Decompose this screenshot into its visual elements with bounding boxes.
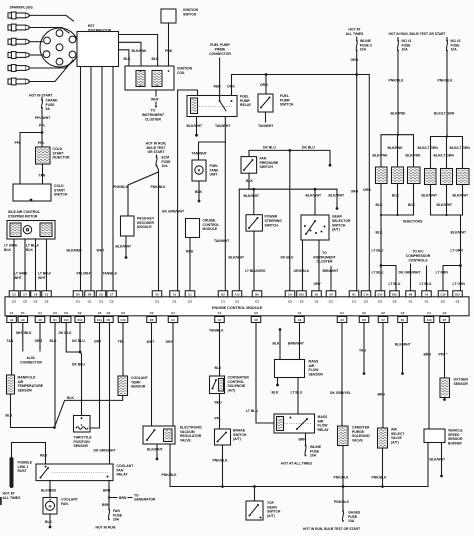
svg-text:A10: A10	[235, 292, 240, 296]
svg-text:BLK/WHT: BLK/WHT	[437, 203, 454, 207]
edge mark	[0, 497, 2, 505]
svg-text:BLK/RED: BLK/RED	[41, 489, 57, 493]
engine control module body	[5, 297, 469, 316]
air select valve	[378, 428, 388, 448]
svg-text:LT GRN: LT GRN	[436, 270, 449, 274]
svg-text:PNK/BLK: PNK/BLK	[438, 79, 454, 83]
wire BLK/WHT EVRV ground	[156, 444, 158, 458]
svg-text:BLK: BLK	[67, 396, 75, 400]
ECM fuse 10A	[156, 155, 158, 157]
svg-text:PNK/BLK: PNK/BLK	[372, 476, 388, 480]
svg-text:CLUSTER: CLUSTER	[316, 260, 333, 264]
fuel tank unit	[192, 160, 206, 181]
wire TAN/BLK distributor	[112, 67, 114, 291]
ECM bottom connector C2	[378, 317, 388, 323]
svg-text:TO: TO	[151, 109, 156, 113]
svg-text:BLK/WHT: BLK/WHT	[395, 342, 412, 346]
wire WHT distributor	[101, 67, 103, 291]
svg-text:A4: A4	[171, 318, 175, 322]
svg-text:C9: C9	[288, 292, 292, 296]
svg-text:DK GRN/YEL: DK GRN/YEL	[330, 391, 351, 395]
wire DK GRN/WHT to A/C controls	[410, 264, 412, 291]
svg-text:A9: A9	[21, 318, 25, 322]
svg-text:ENGINE CONTROL MODULE: ENGINE CONTROL MODULE	[212, 306, 263, 310]
PNK/BLK bus	[170, 486, 428, 488]
injector bank 1 return bus	[381, 214, 414, 216]
injector bank 2 return bus	[431, 214, 463, 216]
svg-text:BLK/PNK: BLK/PNK	[388, 146, 404, 150]
svg-text:DK BLU: DK BLU	[281, 255, 294, 259]
svg-text:PPL: PPL	[39, 124, 46, 128]
wire injector 2 feed	[397, 135, 399, 167]
svg-text:D16: D16	[392, 292, 397, 296]
svg-text:C2: C2	[456, 300, 460, 304]
svg-text:DK BLU: DK BLU	[263, 146, 276, 150]
wire TAN/WHT branch to fuel tank unit	[199, 142, 226, 160]
svg-text:BRN/WHT: BRN/WHT	[288, 342, 305, 346]
ECM top connector C5	[42, 291, 52, 297]
terminal DK BLU	[329, 164, 332, 167]
svg-text:PNK/BLK: PNK/BLK	[334, 500, 350, 504]
svg-text:ORG: ORG	[351, 58, 359, 62]
svg-text:INSTRUMENT: INSTRUMENT	[142, 113, 165, 117]
svg-text:BLK/WHT: BLK/WHT	[187, 124, 204, 128]
ECM top connector C9	[285, 291, 295, 297]
wire PNK/BLK diagonal to pass-key	[128, 172, 159, 216]
svg-text:BRN: BRN	[102, 503, 110, 507]
svg-text:BLK: BLK	[6, 414, 14, 418]
node BLK ground splice	[53, 426, 56, 429]
injector 4	[425, 169, 437, 185]
spark plug 2	[8, 24, 29, 31]
svg-text:C2: C2	[393, 300, 397, 304]
svg-text:FUEL PUMP: FUEL PUMP	[210, 43, 230, 47]
wire DK BLU C13 to TPS	[79, 323, 81, 353]
svg-text:CONNECTOR: CONNECTOR	[209, 52, 231, 56]
wire BLK/WHT ground right	[402, 323, 404, 372]
svg-text:LT BLU: LT BLU	[389, 282, 401, 286]
svg-text:BRN: BRN	[119, 496, 127, 500]
ground oxygen sensor	[444, 398, 446, 400]
svg-text:C1: C1	[171, 311, 175, 315]
coolant fan motor	[43, 498, 57, 515]
cold start injector	[36, 147, 51, 164]
svg-text:A5: A5	[155, 292, 159, 296]
svg-text:ORG: ORG	[351, 190, 359, 194]
brake switch	[215, 429, 231, 445]
svg-text:C2: C2	[288, 300, 292, 304]
svg-text:PRIME: PRIME	[215, 47, 226, 51]
svg-text:BLK: BLK	[26, 248, 34, 252]
svg-text:(A/T): (A/T)	[267, 514, 275, 518]
svg-text:C2: C2	[254, 311, 258, 315]
svg-text:C2: C2	[300, 300, 304, 304]
svg-text:IDLE AIR CONTROL: IDLE AIR CONTROL	[8, 210, 40, 214]
wire LT GRN/WHT	[24, 239, 26, 291]
node BLK/WHT splice	[252, 188, 255, 191]
svg-text:LT BLU: LT BLU	[372, 270, 384, 274]
svg-text:C2: C2	[78, 311, 82, 315]
svg-text:BLK/PNK: BLK/PNK	[132, 49, 148, 53]
svg-text:C2: C2	[121, 311, 125, 315]
distributor cap towers	[44, 37, 51, 44]
svg-text:TAN/WHT: TAN/WHT	[214, 239, 230, 243]
svg-text:BRN: BRN	[378, 393, 386, 397]
svg-text:PPL/WHT: PPL/WHT	[77, 272, 93, 276]
ECM bottom connector A4	[168, 317, 178, 323]
svg-text:BLK/WHT: BLK/WHT	[451, 231, 468, 235]
ignition coil U-coil	[125, 66, 174, 90]
svg-text:TAN/BLK: TAN/BLK	[103, 272, 118, 276]
svg-text:TAN: TAN	[359, 349, 366, 353]
node ORG junction fuel pump switch	[265, 73, 268, 76]
node bank1 split	[380, 264, 383, 267]
BLK/WHT bus	[239, 188, 337, 190]
coolant temp sensor	[118, 376, 128, 396]
inline fuse 3 20A	[356, 37, 358, 40]
svg-text:SENSOR: SENSOR	[18, 388, 33, 392]
svg-text:C1: C1	[99, 300, 103, 304]
svg-text:BLK/PNK: BLK/PNK	[391, 112, 407, 116]
wire PNK/BLK air select	[382, 448, 384, 487]
svg-text:CONNECTOR: CONNECTOR	[20, 360, 42, 364]
wire YEL to coolant temp sensor	[122, 323, 124, 377]
ECM bottom connector D6	[359, 317, 369, 323]
wire LT BLU to MAF relay	[256, 323, 274, 424]
svg-text:GRY: GRY	[94, 340, 102, 344]
svg-text:BLK: BLK	[272, 391, 280, 395]
wire distributor to coil BLK outer	[119, 35, 158, 67]
svg-text:BLK/LT GRN: BLK/LT GRN	[434, 112, 455, 116]
svg-text:SPARKPLUGS: SPARKPLUGS	[10, 6, 34, 10]
wire DK BLU to C9	[289, 150, 291, 290]
wire PNK/BLK EVRV	[169, 444, 171, 487]
wire WHT/BLK to ALDL	[22, 323, 24, 352]
svg-text:RELAY: RELAY	[240, 103, 252, 107]
svg-text:A10: A10	[427, 318, 432, 322]
svg-text:BLK/PNK: BLK/PNK	[406, 153, 422, 157]
INJ #1 fuse 10A	[397, 38, 399, 41]
svg-text:C1: C1	[221, 300, 225, 304]
svg-text:LT BLU: LT BLU	[420, 282, 432, 286]
svg-text:C10: C10	[121, 318, 126, 322]
svg-text:ORG: ORG	[227, 85, 235, 89]
ECM top connector D10	[297, 291, 307, 297]
wire PNK/BLK brake switch	[222, 445, 224, 487]
svg-text:D1: D1	[53, 318, 57, 322]
svg-text:C2: C2	[45, 300, 49, 304]
svg-text:A1: A1	[10, 318, 14, 322]
svg-text:BRN: BRN	[103, 489, 111, 493]
wire DK GRN/WHT to coolant fan relay	[109, 323, 111, 465]
svg-text:LT GRN: LT GRN	[453, 282, 466, 286]
ECM top connector D15	[453, 291, 463, 297]
ECM top connector D6	[73, 291, 83, 297]
svg-text:MODULE: MODULE	[137, 225, 152, 229]
svg-text:BLK: BLK	[246, 179, 254, 183]
svg-text:C2: C2	[364, 300, 368, 304]
injector 2	[392, 167, 404, 184]
wire LT GRN bank2 to ECM	[460, 215, 462, 291]
svg-text:C1: C1	[76, 300, 80, 304]
wire DK GRN/YEL to canister purge	[341, 323, 343, 427]
cold start switch	[13, 184, 51, 201]
ECM top connector A10	[232, 291, 242, 297]
ECM top connector B1	[349, 291, 359, 297]
svg-text:10A: 10A	[451, 48, 458, 52]
wire TAN	[42, 164, 44, 184]
svg-text:C1: C1	[155, 300, 159, 304]
wire GRY to TPS	[90, 323, 100, 429]
ECM bottom connector A6	[295, 317, 305, 323]
svg-text:DK BLU: DK BLU	[302, 146, 315, 150]
wire BLK/WHT gear selector feed	[314, 189, 316, 215]
svg-text:OR START: OR START	[147, 150, 165, 154]
svg-text:B1: B1	[315, 292, 319, 296]
svg-text:PPL: PPL	[15, 141, 22, 145]
spark plug 5 wire	[29, 63, 71, 68]
svg-text:STEPPER MOTOR: STEPPER MOTOR	[8, 214, 38, 218]
svg-text:C8: C8	[254, 318, 258, 322]
svg-text:C2: C2	[23, 300, 27, 304]
svg-text:SENSOR: SENSOR	[309, 372, 324, 376]
ECM top connector A2	[422, 291, 432, 297]
svg-text:DK BLU: DK BLU	[72, 363, 85, 367]
wire BLK/RED to coolant fan	[49, 481, 51, 498]
svg-text:TAN/WHT: TAN/WHT	[192, 151, 208, 155]
svg-text:SWITCH: SWITCH	[260, 165, 274, 169]
svg-text:ORG: ORG	[363, 188, 371, 192]
ECM top connector C1	[185, 291, 195, 297]
wire LT GRN/BLK	[13, 239, 15, 291]
svg-text:BLK/WHT: BLK/WHT	[116, 245, 133, 249]
ground MAF sensor BLK stub	[279, 328, 282, 331]
ECM bottom connector A3	[337, 317, 347, 323]
svg-text:5A: 5A	[46, 107, 51, 111]
svg-text:10A: 10A	[348, 519, 355, 523]
wire PNK/BLK canister	[342, 446, 344, 487]
svg-text:DISTRIBUTOR: DISTRIBUTOR	[88, 28, 112, 32]
coolant fan relay	[36, 464, 113, 481]
svg-text:BLK/WHT: BLK/WHT	[229, 255, 246, 259]
svg-text:M: M	[49, 504, 52, 508]
wire PNK/BLK injector bank 1	[397, 51, 399, 135]
wire ORG to relay	[231, 75, 233, 96]
injector 5	[441, 169, 453, 185]
svg-text:B1: B1	[352, 292, 356, 296]
svg-text:RED: RED	[40, 453, 48, 457]
svg-text:C1: C1	[188, 292, 192, 296]
ECM top connector B1	[312, 291, 322, 297]
wire BLK/WHT VSS ground	[441, 443, 443, 475]
svg-text:SWITCH: SWITCH	[265, 223, 279, 227]
svg-text:20A: 20A	[310, 454, 317, 458]
ECM top connector C7	[107, 291, 117, 297]
svg-text:MODULE: MODULE	[203, 227, 218, 231]
svg-text:HOT IN RUN, BULB TEST OR STAR: HOT IN RUN, BULB TEST OR START	[388, 32, 445, 36]
svg-text:B9: B9	[255, 292, 259, 296]
injector 6	[457, 169, 470, 185]
pass-key decoder module	[121, 216, 135, 236]
svg-text:M: M	[198, 169, 201, 173]
ground fuel tank	[198, 200, 201, 203]
distributor cap circle	[40, 28, 79, 67]
wire injector 1 return	[380, 184, 382, 216]
svg-text:BLK/LT GRN: BLK/LT GRN	[434, 153, 455, 157]
ECM bottom connector A7	[215, 317, 225, 323]
svg-text:A7: A7	[218, 318, 222, 322]
mass air flow sensor	[275, 360, 305, 378]
wire BLK fuel tank ground	[198, 181, 200, 200]
wire injector 3 return	[413, 184, 415, 216]
svg-text:CONTROLS: CONTROLS	[408, 258, 428, 262]
wire PPL to oxygen sensor	[444, 323, 446, 379]
svg-text:C1: C1	[88, 300, 92, 304]
svg-text:C2: C2	[443, 311, 447, 315]
svg-text:TAN/WHT: TAN/WHT	[258, 124, 274, 128]
svg-text:D8: D8	[88, 292, 92, 296]
svg-text:C2: C2	[12, 300, 16, 304]
svg-text:BLK: BLK	[195, 190, 203, 194]
svg-text:INJECTOR: INJECTOR	[53, 156, 71, 160]
wire injector 4 return	[430, 185, 432, 216]
wire LT BLU MAF	[297, 378, 299, 415]
svg-text:PPL: PPL	[38, 141, 45, 145]
svg-text:D8: D8	[150, 318, 154, 322]
ECM bottom connector C14	[95, 317, 105, 323]
wire BLK MAT sensor	[11, 394, 55, 428]
ECM bottom connector A1	[7, 317, 17, 323]
svg-text:BLK/PNK: BLK/PNK	[373, 153, 389, 157]
svg-text:C3: C3	[12, 292, 16, 296]
ECM top connector B8	[406, 291, 416, 297]
wire DK BLU C12	[66, 323, 80, 353]
svg-text:VALVE: VALVE	[180, 438, 192, 442]
svg-text:INJECTORS: INJECTORS	[403, 220, 423, 224]
svg-text:ALL TIMES: ALL TIMES	[346, 32, 365, 36]
spark plug 6 wire	[29, 60, 73, 82]
svg-text:10A: 10A	[162, 164, 169, 168]
wire TAN/BLK to converter control solenoid	[219, 323, 221, 377]
svg-text:BLK/LT GRN: BLK/LT GRN	[450, 146, 471, 150]
wire injector 6 feed	[462, 137, 464, 169]
svg-text:C2: C2	[98, 311, 102, 315]
spark plug 1	[8, 12, 29, 19]
wire LT BLU branch to D16	[381, 266, 396, 291]
svg-text:D14: D14	[378, 292, 383, 296]
svg-text:PNK: PNK	[165, 49, 173, 53]
svg-text:BLK: BLK	[215, 366, 223, 370]
wire injector 1 feed	[380, 135, 382, 167]
vehicle speed sensor buffer	[424, 429, 445, 443]
svg-text:(A/T): (A/T)	[228, 388, 236, 392]
wire BLK coolant fan ground	[49, 514, 51, 525]
svg-text:BRN: BRN	[299, 438, 307, 442]
wire BLK/WHT stub terminal	[336, 189, 338, 207]
svg-text:PNK/BLK: PNK/BLK	[151, 185, 167, 189]
svg-text:BRN: BRN	[424, 353, 432, 357]
svg-text:DK GRN/WHT: DK GRN/WHT	[399, 270, 422, 274]
svg-text:BLK: BLK	[376, 231, 384, 235]
ECM top connector B9	[252, 291, 262, 297]
svg-text:DK BLU: DK BLU	[59, 331, 72, 335]
svg-text:C1: C1	[173, 300, 177, 304]
power steering switch	[246, 215, 262, 231]
svg-text:HOT IN START: HOT IN START	[29, 94, 53, 98]
svg-text:TAN: TAN	[7, 339, 14, 343]
manifold air temperature sensor	[7, 375, 15, 394]
wire injector 6 return	[462, 185, 464, 216]
svg-text:PNK/BLK: PNK/BLK	[162, 473, 178, 477]
svg-text:C1: C1	[427, 311, 431, 315]
ECM bottom connector C8	[251, 317, 261, 323]
svg-text:LT BLU: LT BLU	[291, 391, 303, 395]
svg-text:SENSOR: SENSOR	[74, 444, 89, 448]
svg-text:BLK: BLK	[50, 339, 58, 343]
ECM top connector C8	[96, 291, 106, 297]
svg-text:C2: C2	[255, 300, 259, 304]
gear selector switch (A/T)	[301, 215, 329, 240]
svg-text:VALVE: VALVE	[352, 438, 364, 442]
top gear switch (A/T)	[246, 501, 263, 520]
ECM bottom connector D8	[147, 317, 157, 323]
svg-text:C4: C4	[23, 292, 27, 296]
wire BLK/WHT to power steering switch	[253, 189, 255, 215]
fan fuse 20A	[108, 509, 110, 511]
svg-text:SWITCH: SWITCH	[280, 103, 294, 107]
svg-text:BLK/LT GRN: BLK/LT GRN	[418, 146, 439, 150]
svg-text:DK BLU: DK BLU	[72, 339, 85, 343]
svg-text:C2: C2	[34, 300, 38, 304]
svg-text:BLK: BLK	[124, 57, 132, 61]
svg-text:C2: C2	[64, 311, 68, 315]
wire PPL/WHT	[41, 108, 43, 131]
fusible link J	[10, 459, 14, 486]
ECM top connector C6	[31, 291, 41, 297]
svg-text:C5: C5	[45, 292, 49, 296]
svg-text:COMPRESSOR: COMPRESSOR	[406, 254, 431, 258]
ECM bottom connector A8	[35, 317, 45, 323]
cruise control module	[186, 219, 200, 238]
wire BLK/WHT relay ground	[196, 117, 198, 134]
wire PNK/BLK injector bank 2	[446, 51, 448, 137]
wire ORG to ECM C16	[368, 75, 370, 291]
svg-text:PNK/BLK: PNK/BLK	[389, 79, 405, 83]
svg-text:C6: C6	[34, 292, 38, 296]
svg-text:D15: D15	[455, 292, 460, 296]
wire GRY to EVRV	[172, 323, 174, 427]
svg-text:SENSOR: SENSOR	[454, 382, 469, 386]
svg-text:C1: C1	[218, 311, 222, 315]
wire ORG to fuel pump switch	[265, 75, 267, 95]
mass air flow relay	[274, 414, 315, 433]
svg-text:C2: C2	[381, 318, 385, 322]
svg-text:C8: C8	[99, 292, 103, 296]
svg-text:BLK/WHT: BLK/WHT	[430, 458, 447, 462]
svg-text:C13: C13	[77, 318, 82, 322]
injector 1	[376, 167, 388, 184]
svg-text:BLK/WHT: BLK/WHT	[244, 194, 261, 198]
svg-text:TO A/C: TO A/C	[412, 250, 424, 254]
svg-text:PNK/BLK: PNK/BLK	[213, 459, 229, 463]
svg-text:TAN: TAN	[39, 174, 46, 178]
svg-text:WHT: WHT	[97, 249, 106, 253]
svg-text:C7: C7	[110, 292, 114, 296]
wire LT BLU to A/C controls	[426, 266, 428, 291]
svg-text:ORG: ORG	[35, 339, 43, 343]
crank fuse 5A	[41, 98, 43, 100]
svg-text:C2: C2	[378, 300, 382, 304]
